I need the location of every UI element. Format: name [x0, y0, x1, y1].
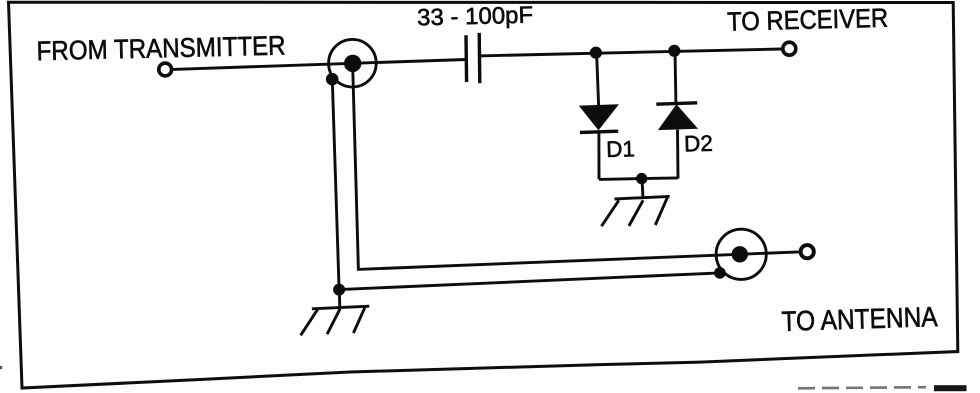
svg-text:D1: D1 — [606, 136, 635, 162]
node: junction dot on bottom rail — [636, 173, 647, 184]
coax connector P1 outer circle — [329, 39, 377, 87]
wire: bottom rail joining D1 and D2 — [599, 178, 678, 180]
svg-text:D2: D2 — [684, 131, 713, 157]
wire: junction to D1 anode — [597, 53, 599, 105]
node: ground junction dot (bottom left) — [333, 284, 345, 296]
scan artifact: black fragment bottom right — [934, 385, 967, 391]
diode D2 triangle (pointing up) — [658, 104, 698, 130]
wire: D2 anode down to bottom rail — [676, 130, 679, 179]
wire: junction to D2 cathode — [674, 51, 678, 103]
ground symbol (bottom left) — [301, 306, 370, 335]
wire: stub from rail junction to ground — [642, 179, 643, 199]
ground symbol (under diodes) — [602, 196, 670, 226]
wire: capacitor to receiver terminal — [480, 49, 782, 56]
terminal J1 (from transmitter, open circle) — [159, 63, 172, 76]
terminal J2 (to receiver, open circle) — [783, 42, 796, 55]
svg-text:TO ANTENNA: TO ANTENNA — [781, 301, 938, 337]
coax connector P1 center pin dot — [344, 55, 361, 72]
wire: across P2 from left edge through center dot to antenna terminal — [715, 252, 799, 255]
diode D1 triangle (pointing down) — [579, 104, 619, 130]
terminal J3 (to antenna, open circle) — [801, 245, 814, 258]
scan artifact: grey dashes bottom — [798, 387, 926, 388]
scan artifact: left edge tick — [0, 366, 2, 369]
svg-text:33 - 100pF: 33 - 100pF — [417, 2, 534, 31]
coax connector P1 shield dot — [326, 73, 339, 86]
diode D2 cathode bar — [656, 103, 697, 104]
wire: stub from junction down to ground — [338, 290, 341, 309]
wire: D1 cathode down to bottom rail — [597, 132, 600, 180]
wire: ground junction to antenna connector shield — [339, 273, 720, 290]
wire: P1 shield down to ground junction — [332, 80, 339, 290]
diode D1 cathode bar — [580, 131, 618, 132]
svg-text:TO RECEIVER: TO RECEIVER — [727, 3, 889, 37]
node: junction dot above D2 — [668, 45, 680, 57]
wire: P1 center pin down and across to antenna connector center — [353, 63, 740, 269]
capacitor C1 right plate — [478, 33, 482, 83]
coax connector P2 (to antenna) outer circle — [716, 229, 766, 279]
svg-text:FROM TRANSMITTER: FROM TRANSMITTER — [36, 31, 286, 67]
node: junction dot above D1 — [590, 47, 602, 59]
capacitor C1 left plate — [464, 35, 468, 82]
wire: transmitter terminal to capacitor left plate — [173, 60, 466, 70]
coax connector P2 center pin dot — [732, 246, 748, 262]
coax connector P2 shield dot — [714, 267, 726, 279]
